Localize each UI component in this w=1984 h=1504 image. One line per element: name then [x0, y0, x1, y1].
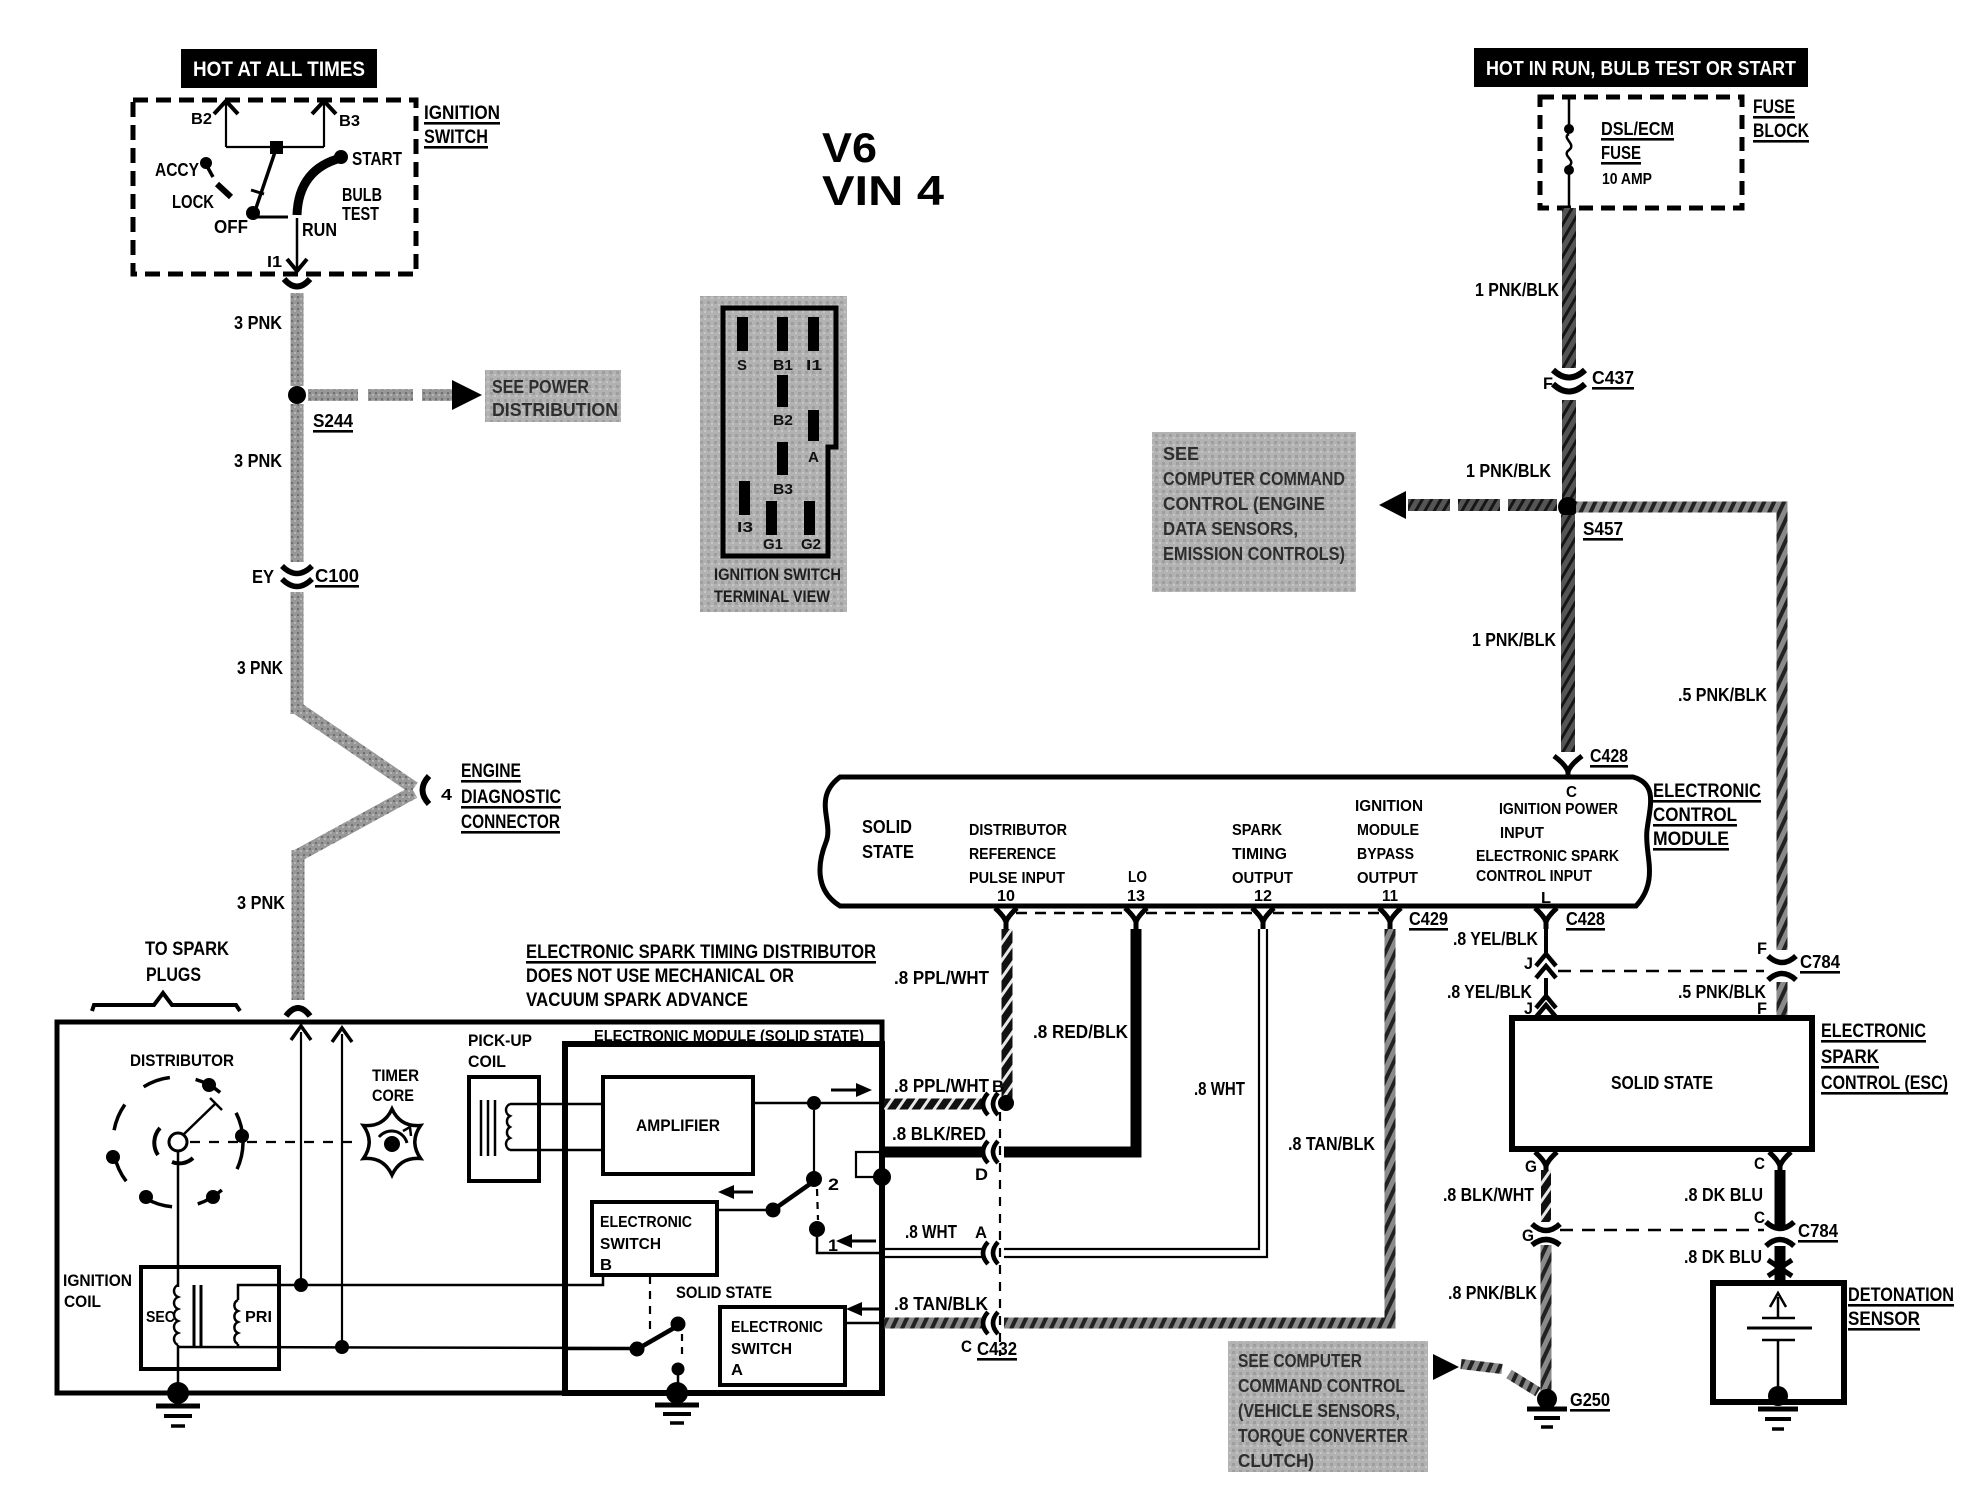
- contact LOCK: [172, 184, 231, 212]
- svg-text:LO: LO: [1128, 869, 1147, 886]
- contact 1: [809, 1221, 884, 1255]
- svg-text:SOLID STATE: SOLID STATE: [1611, 1073, 1713, 1093]
- label IGNITION COIL: [63, 1271, 132, 1311]
- svg-text:C428: C428: [1566, 909, 1605, 929]
- fuse DSL/ECM 10 AMP: [1564, 99, 1674, 208]
- svg-text:C437: C437: [1592, 368, 1634, 388]
- svg-text:.8 WHT: .8 WHT: [905, 1222, 957, 1242]
- svg-text:SEE COMPUTER: SEE COMPUTER: [1238, 1351, 1362, 1371]
- svg-text:ELECTRONIC: ELECTRONIC: [1821, 1021, 1926, 1042]
- contact ACCY: [155, 157, 213, 180]
- svg-text:DETONATION: DETONATION: [1848, 1285, 1954, 1306]
- svg-text:12: 12: [1254, 888, 1272, 905]
- svg-text:VACUUM SPARK ADVANCE: VACUUM SPARK ADVANCE: [526, 990, 748, 1011]
- ignition coil box: [141, 1267, 279, 1369]
- terminal S: [737, 317, 748, 351]
- svg-text:IGNITION POWER: IGNITION POWER: [1499, 801, 1618, 818]
- svg-text:.8 BLK/WHT: .8 BLK/WHT: [1443, 1185, 1534, 1205]
- svg-text:PULSE INPUT: PULSE INPUT: [969, 870, 1065, 887]
- module pin D .8 BLK/RED: [856, 1124, 998, 1186]
- svg-text:CONNECTOR: CONNECTOR: [461, 812, 560, 833]
- svg-text:.8 YEL/BLK: .8 YEL/BLK: [1447, 982, 1532, 1002]
- wire 3 PNK upper segment: [234, 293, 297, 386]
- svg-text:C100: C100: [315, 566, 359, 586]
- wire 1 PNK/BLK to C428: [1472, 515, 1568, 752]
- connector C784 lower: [1754, 1208, 1838, 1246]
- svg-text:.8 RED/BLK: .8 RED/BLK: [1033, 1022, 1128, 1042]
- svg-text:A: A: [731, 1362, 743, 1379]
- header HOT IN RUN, BULB TEST OR START: [1474, 48, 1808, 87]
- wire .8 WHT pin 12: [1004, 929, 1267, 1257]
- switch arm B: [717, 1184, 810, 1218]
- svg-text:SENSOR: SENSOR: [1848, 1309, 1920, 1330]
- arrow to computer command control: [1379, 491, 1557, 519]
- svg-text:.8 PNK/BLK: .8 PNK/BLK: [1448, 1283, 1537, 1303]
- svg-text:ENGINE: ENGINE: [461, 761, 521, 782]
- svg-text:D: D: [975, 1165, 988, 1184]
- terminal I1: [808, 317, 819, 351]
- connector C429 pin 12: [1252, 908, 1274, 929]
- svg-text:S244: S244: [313, 411, 353, 431]
- svg-text:SPARK: SPARK: [1821, 1047, 1879, 1068]
- label PICK-UP COIL: [468, 1031, 532, 1071]
- svg-text:I1: I1: [806, 357, 822, 374]
- svg-text:C784: C784: [1800, 952, 1840, 972]
- svg-text:.8 TAN/BLK: .8 TAN/BLK: [894, 1294, 988, 1314]
- svg-text:.8 DK BLU: .8 DK BLU: [1684, 1185, 1763, 1205]
- svg-text:ELECTRONIC SPARK TIMING DISTRI: ELECTRONIC SPARK TIMING DISTRIBUTOR: [526, 942, 876, 963]
- svg-text:IGNITION: IGNITION: [63, 1271, 132, 1290]
- wire bus B2-B3 with junction: [226, 141, 324, 154]
- svg-text:.8 PPL/WHT: .8 PPL/WHT: [894, 1076, 989, 1096]
- svg-text:3 PNK: 3 PNK: [237, 893, 285, 913]
- electronic switch A box: [720, 1307, 845, 1385]
- svg-text:FUSE: FUSE: [1753, 97, 1795, 118]
- svg-text:B: B: [992, 1077, 1004, 1096]
- terminal I3: [739, 481, 750, 515]
- terminal B2: [777, 375, 788, 407]
- svg-text:C: C: [961, 1337, 972, 1356]
- title V6 VIN 4: [822, 124, 945, 214]
- svg-text:C784: C784: [1798, 1221, 1838, 1241]
- coil SEC winding: [174, 1285, 178, 1345]
- module pin A .8 WHT: [884, 1222, 998, 1264]
- connector C428 pin L: [1535, 908, 1605, 931]
- svg-text:DATA SENSORS,: DATA SENSORS,: [1163, 519, 1298, 539]
- svg-text:SOLID: SOLID: [862, 817, 912, 837]
- svg-text:PRI: PRI: [245, 1309, 272, 1326]
- switch arm A: [565, 1317, 686, 1391]
- wire 3 PNK third segment: [237, 592, 297, 714]
- svg-text:SWITCH: SWITCH: [424, 127, 488, 148]
- svg-text:HOT AT ALL TIMES: HOT AT ALL TIMES: [193, 58, 365, 81]
- label DETONATION SENSOR: [1848, 1285, 1954, 1331]
- label ELECTRONIC SPARK CONTROL (ESC): [1821, 1021, 1948, 1095]
- label ELECTRONIC CONTROL MODULE: [1653, 781, 1761, 851]
- svg-text:DIAGNOSTIC: DIAGNOSTIC: [461, 787, 561, 808]
- electronic switch B box: [592, 1202, 717, 1275]
- connector J lower: [1524, 996, 1556, 1018]
- svg-text:INPUT: INPUT: [1500, 825, 1544, 842]
- svg-text:C429: C429: [1409, 909, 1448, 929]
- splice S244: [288, 386, 353, 433]
- ECM (electronic control module) block: [820, 777, 1651, 907]
- svg-text:I3: I3: [737, 519, 753, 536]
- ignition switch terminal view inset: [700, 296, 847, 612]
- svg-text:SOLID STATE: SOLID STATE: [676, 1283, 772, 1302]
- svg-text:.8 PPL/WHT: .8 PPL/WHT: [894, 968, 989, 988]
- svg-text:A: A: [975, 1223, 987, 1242]
- svg-text:1 PNK/BLK: 1 PNK/BLK: [1475, 280, 1559, 300]
- svg-text:SWITCH: SWITCH: [600, 1236, 661, 1253]
- dashed line J to C784: [1558, 970, 1764, 973]
- dashed shaft line: [190, 1141, 358, 1143]
- wire .8 YEL/BLK pin L upper: [1453, 929, 1546, 955]
- svg-text:B3: B3: [773, 481, 793, 498]
- svg-text:HOT IN RUN, BULB TEST OR START: HOT IN RUN, BULB TEST OR START: [1486, 58, 1796, 80]
- label ELECTRONIC SPARK TIMING DISTRIBUTOR note: [526, 942, 876, 1011]
- svg-text:S: S: [737, 357, 747, 374]
- svg-text:.8 WHT: .8 WHT: [1194, 1079, 1245, 1099]
- svg-text:.8 TAN/BLK: .8 TAN/BLK: [1288, 1134, 1375, 1154]
- header HOT AT ALL TIMES: [181, 49, 377, 88]
- fuse block box: [1540, 97, 1809, 208]
- svg-text:I1: I1: [267, 254, 282, 271]
- svg-text:DSL/ECM: DSL/ECM: [1601, 119, 1674, 139]
- wire RUN to I1 with arrow: [267, 218, 307, 271]
- terminal B3: [777, 442, 788, 475]
- svg-text:ELECTRONIC: ELECTRONIC: [731, 1319, 823, 1336]
- svg-text:PICK-UP: PICK-UP: [468, 1031, 532, 1050]
- wire 3 PNK second segment: [234, 404, 297, 562]
- note SEE COMPUTER COMMAND CONTROL (ENGINE DATA SENSORS, EMISSION CONTROLS): [1152, 432, 1356, 592]
- svg-text:4: 4: [441, 787, 452, 804]
- ESC solid state box: [1512, 1018, 1812, 1149]
- connector J upper: [1524, 954, 1556, 978]
- wire .8 DK BLU upper: [1684, 1170, 1780, 1226]
- ground G250: [1527, 1389, 1610, 1427]
- terminal G1: [766, 501, 777, 535]
- svg-text:REFERENCE: REFERENCE: [969, 846, 1056, 863]
- svg-text:13: 13: [1127, 888, 1145, 905]
- connector at I1: [284, 279, 310, 287]
- ground at detonation sensor: [1758, 1409, 1798, 1429]
- svg-text:2: 2: [828, 1175, 839, 1194]
- note SEE COMPUTER COMMAND CONTROL (VEHICLE SENSORS, TORQUE CONVERTER CLUTCH): [1228, 1341, 1428, 1472]
- svg-text:G: G: [1525, 1157, 1537, 1176]
- svg-text:VIN 4: VIN 4: [822, 167, 945, 214]
- svg-text:.8 BLK/RED: .8 BLK/RED: [892, 1124, 986, 1144]
- svg-text:11: 11: [1382, 888, 1398, 905]
- svg-text:F: F: [1757, 939, 1767, 958]
- dashed switch B to switch A: [649, 1276, 651, 1336]
- svg-text:BULB: BULB: [342, 185, 382, 205]
- wire switch A to TAN/BLK pin: [845, 1302, 884, 1323]
- ignition switch terminal B3: [312, 101, 360, 147]
- svg-text:ELECTRONIC: ELECTRONIC: [600, 1214, 692, 1231]
- wire S457 to right branch: [1576, 507, 1782, 950]
- svg-text:G1: G1: [763, 536, 783, 553]
- svg-text:BLOCK: BLOCK: [1753, 121, 1809, 142]
- svg-text:F: F: [1543, 374, 1553, 393]
- svg-text:G2: G2: [801, 536, 821, 553]
- wire coil PRI top to switch B: [238, 1276, 603, 1300]
- svg-text:(VEHICLE SENSORS,: (VEHICLE SENSORS,: [1238, 1401, 1400, 1421]
- wire arrow to power distribution: [308, 380, 482, 410]
- svg-text:START: START: [352, 149, 402, 169]
- svg-text:S457: S457: [1583, 519, 1623, 539]
- svg-text:IGNITION: IGNITION: [1355, 798, 1423, 815]
- label TIMER CORE: [372, 1066, 419, 1105]
- svg-text:B: B: [600, 1257, 612, 1274]
- svg-text:TIMING: TIMING: [1232, 846, 1287, 863]
- svg-text:ELECTRONIC SPARK: ELECTRONIC SPARK: [1476, 848, 1619, 865]
- connector C429 pin 11: [1379, 908, 1448, 931]
- svg-text:ACCY: ACCY: [155, 160, 199, 180]
- svg-text:3 PNK: 3 PNK: [237, 658, 283, 678]
- svg-text:IGNITION SWITCH: IGNITION SWITCH: [714, 565, 841, 584]
- riser wire to cap (right): [332, 1028, 352, 1347]
- connector C429 pin 13: [1125, 908, 1147, 929]
- wire 3 PNK bottom segment: [237, 850, 310, 1016]
- wire .5 PNK/BLK down right side: [1678, 685, 1767, 705]
- amplifier box: [603, 1077, 753, 1174]
- wire .8 PPL/WHT pin 10: [894, 929, 1007, 1098]
- svg-text:EY: EY: [252, 567, 274, 587]
- svg-text:J: J: [1524, 954, 1533, 973]
- svg-text:TIMER: TIMER: [372, 1066, 419, 1085]
- svg-text:SEE: SEE: [1163, 444, 1199, 464]
- svg-text:C428: C428: [1590, 746, 1628, 766]
- svg-text:10: 10: [997, 888, 1015, 905]
- connector C100: [252, 566, 359, 588]
- coil ground: [156, 1382, 200, 1426]
- pick-up coil: [469, 1077, 539, 1181]
- wire .8 RED/BLK pin 13: [1004, 929, 1136, 1152]
- detonation sensor box: [1713, 1283, 1844, 1406]
- dashed contact 2 to contact 1: [817, 1189, 818, 1220]
- svg-text:TO SPARK: TO SPARK: [145, 939, 229, 960]
- svg-text:G250: G250: [1570, 1390, 1610, 1410]
- svg-text:CONTROL (ESC): CONTROL (ESC): [1821, 1073, 1948, 1094]
- wire pick-up coil to amplifier: [510, 1104, 603, 1150]
- svg-text:10 AMP: 10 AMP: [1602, 171, 1652, 188]
- svg-text:FUSE: FUSE: [1601, 143, 1641, 163]
- connector C at ESC: [1754, 1152, 1791, 1173]
- svg-text:SWITCH: SWITCH: [731, 1341, 792, 1358]
- svg-text:COIL: COIL: [468, 1052, 506, 1071]
- svg-text:B2: B2: [191, 111, 212, 128]
- svg-text:IGNITION: IGNITION: [424, 103, 500, 124]
- svg-text:CONTROL: CONTROL: [1653, 805, 1737, 826]
- wire distributor rotor to coil: [177, 1151, 180, 1287]
- svg-text:.8 YEL/BLK: .8 YEL/BLK: [1453, 929, 1538, 949]
- terminal G2: [804, 501, 815, 535]
- svg-text:C432: C432: [977, 1339, 1017, 1359]
- module pin B .8 PPL/WHT: [884, 1076, 1014, 1115]
- svg-text:OFF: OFF: [214, 217, 248, 237]
- svg-text:COMMAND CONTROL: COMMAND CONTROL: [1238, 1376, 1405, 1396]
- svg-text:DISTRIBUTOR: DISTRIBUTOR: [969, 822, 1067, 839]
- dashed connector C432 line: [999, 1112, 1001, 1356]
- svg-text:MODULE: MODULE: [1653, 829, 1729, 850]
- switch arm (wiper): [246, 149, 288, 220]
- svg-text:STATE: STATE: [862, 842, 914, 862]
- connector C784 upper right: [1678, 939, 1840, 1018]
- svg-text:L: L: [1541, 890, 1551, 907]
- coil core: [194, 1285, 201, 1348]
- svg-text:.5 PNK/BLK: .5 PNK/BLK: [1678, 982, 1766, 1002]
- svg-text:V6: V6: [822, 124, 877, 171]
- wire .8 BLK/WHT: [1443, 1170, 1546, 1222]
- wire .8 DK BLU lower: [1684, 1246, 1792, 1281]
- timer core star: [363, 1109, 420, 1175]
- svg-text:DISTRIBUTION: DISTRIBUTION: [492, 400, 618, 420]
- svg-text:1 PNK/BLK: 1 PNK/BLK: [1466, 461, 1551, 481]
- svg-text:TEST: TEST: [342, 204, 379, 224]
- terminal B1: [777, 317, 788, 351]
- contact START and bulb-test arc: [297, 149, 402, 224]
- coil PRI winding: [234, 1300, 238, 1344]
- module ground: [655, 1382, 699, 1423]
- svg-text:1 PNK/BLK: 1 PNK/BLK: [1472, 630, 1556, 650]
- svg-text:AMPLIFIER: AMPLIFIER: [636, 1116, 720, 1135]
- svg-text:LOCK: LOCK: [172, 192, 214, 212]
- label ENGINE DIAGNOSTIC CONNECTOR: [461, 761, 561, 834]
- dashed connector line C429: [1016, 912, 1380, 915]
- svg-text:PLUGS: PLUGS: [146, 965, 201, 986]
- ignition switch terminal B2: [191, 101, 238, 147]
- connector engine diagnostic pin 4: [423, 776, 453, 804]
- svg-text:CONTROL (ENGINE: CONTROL (ENGINE: [1163, 494, 1325, 514]
- svg-text:TERMINAL VIEW: TERMINAL VIEW: [714, 587, 831, 606]
- svg-text:CLUTCH): CLUTCH): [1238, 1451, 1314, 1471]
- svg-text:C: C: [1566, 784, 1577, 801]
- riser wire to cap (left): [291, 1026, 311, 1285]
- svg-text:C: C: [1754, 1208, 1765, 1227]
- connector G lower: [1522, 1224, 1560, 1245]
- wire 1 PNK/BLK from fuse: [1475, 208, 1569, 368]
- wire coil bottom to switch A pivot: [178, 1340, 637, 1354]
- wire .8 PNK/BLK to G250: [1448, 1245, 1546, 1396]
- wire V to engine diagnostic connector: [297, 708, 414, 856]
- wire SEC to ground: [177, 1345, 180, 1390]
- wire .8 YEL/BLK pin L lower: [1447, 978, 1546, 1002]
- svg-text:DOES NOT USE MECHANICAL OR: DOES NOT USE MECHANICAL OR: [526, 966, 794, 987]
- note SEE POWER DISTRIBUTION: [485, 370, 621, 422]
- label TO SPARK PLUGS with brace: [92, 939, 240, 1011]
- connector C428 top: [1554, 746, 1628, 779]
- svg-text:COIL: COIL: [64, 1292, 101, 1311]
- svg-text:SEE POWER: SEE POWER: [492, 377, 589, 397]
- svg-text:3 PNK: 3 PNK: [234, 313, 282, 333]
- wire 1 PNK/BLK second: [1466, 400, 1569, 500]
- electronic module box: [565, 1044, 882, 1393]
- svg-text:MODULE: MODULE: [1357, 822, 1419, 839]
- connector C437: [1543, 368, 1634, 393]
- module pin C .8 TAN/BLK: [884, 1294, 1017, 1361]
- dashed line G to C784 lower: [1560, 1229, 1764, 1232]
- wire amplifier output: [753, 1083, 884, 1110]
- svg-text:.5 PNK/BLK: .5 PNK/BLK: [1678, 685, 1767, 705]
- svg-text:CORE: CORE: [372, 1086, 414, 1105]
- svg-text:ELECTRONIC: ELECTRONIC: [1653, 781, 1761, 802]
- svg-text:OUTPUT: OUTPUT: [1357, 870, 1418, 887]
- terminal A: [808, 410, 819, 441]
- ignition switch SW1 box: [133, 100, 500, 274]
- svg-text:3 PNK: 3 PNK: [234, 451, 282, 471]
- svg-text:SEC: SEC: [146, 1309, 175, 1326]
- svg-text:OUTPUT: OUTPUT: [1232, 870, 1293, 887]
- svg-text:B2: B2: [773, 412, 793, 429]
- svg-text:COMPUTER COMMAND: COMPUTER COMMAND: [1163, 469, 1345, 489]
- wire .8 TAN/BLK pin 11: [1004, 929, 1390, 1323]
- svg-text:TORQUE CONVERTER: TORQUE CONVERTER: [1238, 1426, 1408, 1446]
- wire junction to contact 2: [806, 1110, 839, 1194]
- svg-text:A: A: [808, 449, 819, 466]
- svg-text:.8 DK BLU: .8 DK BLU: [1684, 1247, 1762, 1267]
- svg-text:CONTROL INPUT: CONTROL INPUT: [1476, 868, 1592, 885]
- rotor: [154, 1098, 222, 1163]
- distributor outer box: [57, 1022, 882, 1393]
- svg-text:BYPASS: BYPASS: [1357, 846, 1414, 863]
- splice S457: [1558, 497, 1623, 541]
- svg-text:B1: B1: [773, 357, 793, 374]
- svg-text:B3: B3: [339, 113, 360, 130]
- connector G at ESC: [1525, 1152, 1557, 1176]
- svg-text:SPARK: SPARK: [1232, 822, 1282, 839]
- arrow from computer command control to G250: [1433, 1354, 1538, 1392]
- svg-text:EMISSION CONTROLS): EMISSION CONTROLS): [1163, 544, 1345, 564]
- svg-text:DISTRIBUTOR: DISTRIBUTOR: [130, 1051, 234, 1070]
- svg-text:RUN: RUN: [302, 220, 337, 240]
- distributor cap circle: [106, 1077, 249, 1207]
- svg-text:C: C: [1754, 1154, 1765, 1173]
- connector C429 pin 10: [995, 908, 1017, 929]
